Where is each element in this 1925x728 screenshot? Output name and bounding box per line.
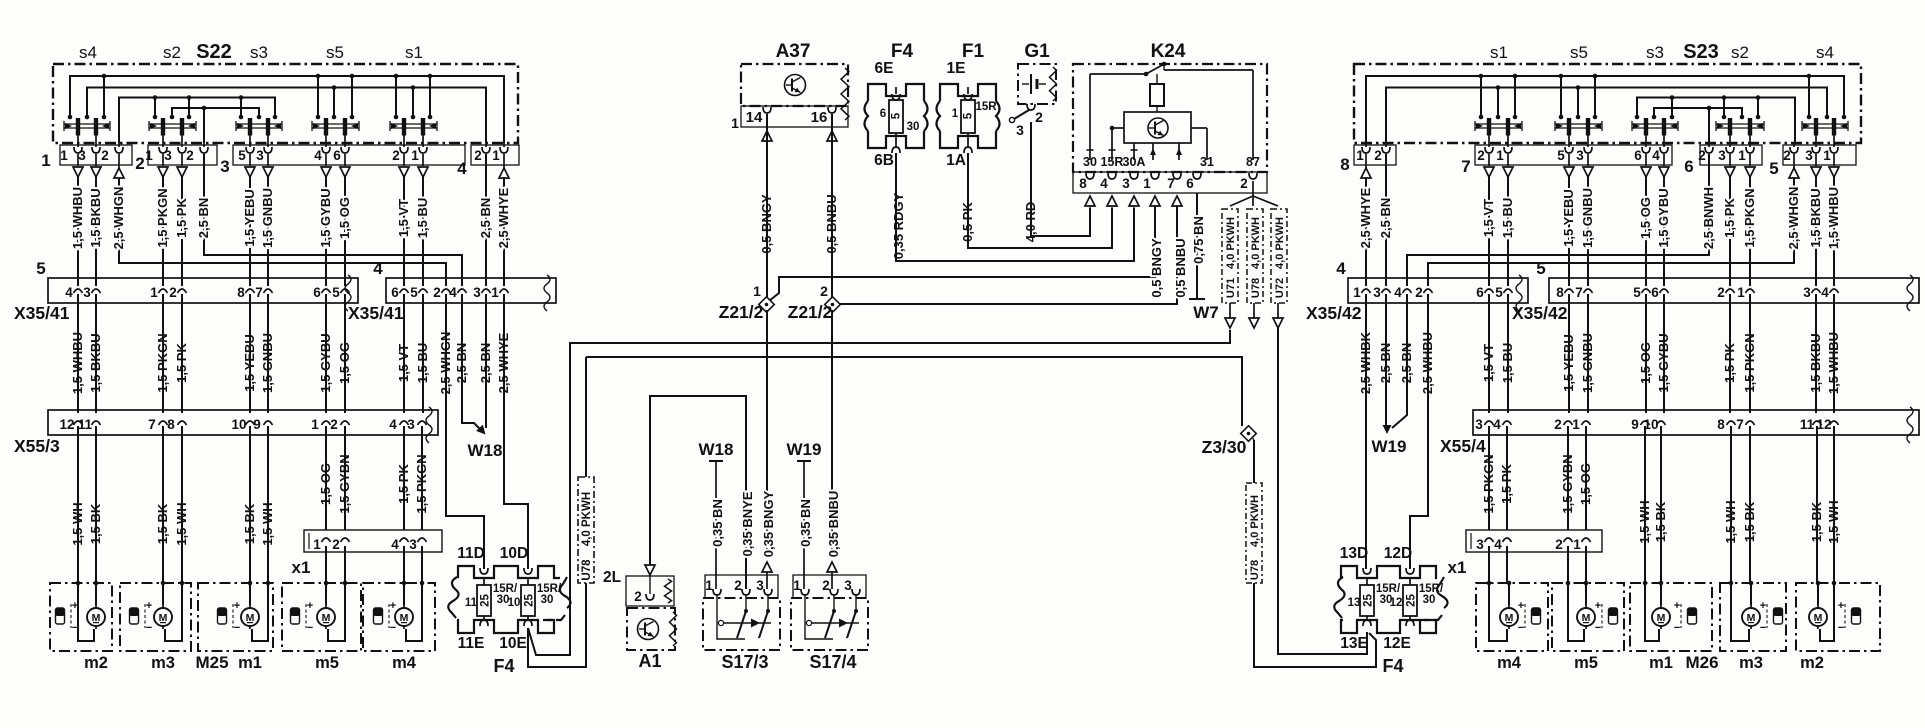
svg-text:Z21/2: Z21/2 <box>788 302 833 322</box>
svg-text:+: + <box>1760 600 1766 612</box>
svg-text:3: 3 <box>220 157 229 176</box>
svg-text:F1: F1 <box>962 41 985 62</box>
svg-text:4,0 PKWH: 4,0 PKWH <box>581 492 593 546</box>
wiper motor box m3 <box>120 583 191 651</box>
A37 internal transistor <box>785 75 806 96</box>
S22 internal bus wire b4 <box>172 108 259 117</box>
svg-text:87: 87 <box>1246 155 1260 169</box>
svg-text:3: 3 <box>1373 285 1381 300</box>
svg-text:F4: F4 <box>1382 656 1403 676</box>
svg-text:11: 11 <box>465 597 478 609</box>
switch pack S23 enclosure <box>1354 64 1861 143</box>
motor m1 right <box>1652 608 1670 626</box>
svg-text:1: 1 <box>492 148 500 163</box>
wire 2,5 WHGN to fuse 11D <box>446 294 484 569</box>
svg-text:13D: 13D <box>1340 545 1368 562</box>
wire 2,5 WHBK to fuse 13D <box>1365 294 1367 569</box>
svg-text:4,0 PKWH: 4,0 PKWH <box>1249 495 1261 547</box>
washer pump switch S17/3 box <box>703 598 780 650</box>
wiper motor box m1 right <box>1630 583 1712 651</box>
K24 pin 2 splice fan-out <box>1252 181 1254 196</box>
K24 relay coil <box>1150 84 1164 106</box>
wire A37-14 to node Z21/2-1 <box>766 114 768 298</box>
svg-text:11D: 11D <box>457 545 485 562</box>
svg-text:1,5 OG: 1,5 OG <box>337 197 352 239</box>
A37 pin row <box>741 106 848 127</box>
motor m3 right <box>1742 608 1760 626</box>
S23 harness connector arrows <box>1488 154 1490 166</box>
S22 connector bracket group 1 <box>60 145 132 165</box>
svg-text:1: 1 <box>1823 148 1831 163</box>
svg-text:2,5 WHYE: 2,5 WHYE <box>1358 187 1373 248</box>
S22 connector bracket group 2 <box>148 145 217 165</box>
svg-text:4,0 PKWH: 4,0 PKWH <box>1250 217 1262 269</box>
svg-text:8: 8 <box>1556 285 1564 300</box>
S23 bus stub junction dots <box>1479 115 1484 120</box>
connector X35/42 left strip <box>1348 278 1528 303</box>
svg-text:3: 3 <box>1805 148 1813 163</box>
wiper motor box m4 <box>363 583 435 651</box>
svg-text:4,0 PKWH: 4,0 PKWH <box>1225 217 1237 269</box>
switch s4 contacts <box>64 123 110 125</box>
svg-text:1,5 WHBU: 1,5 WHBU <box>70 187 85 249</box>
svg-text:U71: U71 <box>1225 278 1237 298</box>
svg-text:2: 2 <box>822 578 830 593</box>
svg-text:2,5 BN: 2,5 BN <box>196 198 211 238</box>
wires X55/4 to x1 and motors right <box>1488 426 1490 530</box>
washer pump switch S17/4 box <box>791 598 868 650</box>
ground W7 <box>1189 298 1205 300</box>
svg-text:8: 8 <box>167 417 175 432</box>
connector X35/42 right strip <box>1549 278 1919 303</box>
svg-text:0,35 BN: 0,35 BN <box>710 499 725 547</box>
svg-text:25: 25 <box>480 594 492 607</box>
svg-text:−: − <box>390 622 396 634</box>
svg-text:1: 1 <box>41 151 50 170</box>
wiper motor box m5 <box>282 583 361 651</box>
svg-text:A37: A37 <box>776 41 811 62</box>
switch s4 contacts right <box>1802 123 1848 125</box>
wire node Z21/2-2 to S17/4-2 <box>831 310 833 552</box>
svg-text:3: 3 <box>1576 148 1584 163</box>
motor m3 <box>154 608 172 626</box>
svg-text:1: 1 <box>705 578 713 593</box>
svg-text:3: 3 <box>1016 122 1024 138</box>
wire heated nozzle A1 to S17/3-2 <box>650 396 746 589</box>
K24 internal connections <box>1111 128 1113 160</box>
svg-text:m4: m4 <box>1497 654 1522 672</box>
wire 2,5 BN to ground W18 <box>462 294 483 432</box>
relay module K24 box <box>1073 64 1267 172</box>
connector X55/3 strip <box>48 410 438 435</box>
svg-text:X35/42: X35/42 <box>1512 303 1568 323</box>
svg-text:1,5 PK: 1,5 PK <box>174 198 189 238</box>
svg-text:2: 2 <box>1374 148 1382 163</box>
svg-text:2,5 BN: 2,5 BN <box>478 198 493 238</box>
wires X35/42 to X55/4 <box>1488 294 1490 413</box>
wire K24-1 to node Z21/2-1 <box>769 206 1155 301</box>
svg-text:0,75 BN: 0,75 BN <box>1191 216 1206 264</box>
svg-text:F4: F4 <box>493 656 514 676</box>
node Z21/2-2 <box>825 297 841 313</box>
wire 2,5 WHGN jog right <box>1428 178 1794 286</box>
svg-text:3: 3 <box>83 285 91 300</box>
fuse housing castellated outline <box>868 84 924 101</box>
svg-text:7: 7 <box>1461 157 1470 176</box>
wire K24-7 to node Z21/2-2 <box>840 206 1177 304</box>
motor m5 <box>317 608 335 626</box>
svg-text:3: 3 <box>409 537 417 552</box>
svg-text:1: 1 <box>753 283 761 299</box>
svg-text:11: 11 <box>1800 417 1815 432</box>
svg-text:m5: m5 <box>1574 654 1598 672</box>
wire 2,5 WHGN jog to X35/41 <box>119 178 446 286</box>
svg-text:8: 8 <box>1079 176 1087 191</box>
wire A37-16 to node Z21/2-2 <box>831 114 833 298</box>
svg-text:s3: s3 <box>250 43 268 62</box>
A37 connector arrows <box>762 131 772 141</box>
svg-text:1: 1 <box>60 148 68 163</box>
switch pack S22 enclosure <box>53 64 518 143</box>
svg-text:31: 31 <box>1200 155 1214 169</box>
svg-text:3: 3 <box>164 148 172 163</box>
svg-text:5: 5 <box>1536 259 1545 278</box>
svg-text:1,5 GNBU: 1,5 GNBU <box>1580 188 1595 248</box>
svg-text:9: 9 <box>1631 417 1639 432</box>
svg-text:A1: A1 <box>638 651 661 671</box>
wires X55/3 to x1 and motors <box>325 426 327 530</box>
wire fuse 10E to splice U71 run <box>528 330 1230 655</box>
svg-text:6: 6 <box>313 285 321 300</box>
svg-text:s5: s5 <box>326 43 344 62</box>
wire 2,5 BN to ground W18 second <box>485 294 487 428</box>
S22 pin terminals <box>77 135 79 147</box>
svg-text:W19: W19 <box>1372 437 1407 456</box>
wire node Z21/2-1 to S17/3-3 <box>766 310 768 552</box>
svg-text:0,35 BNYE: 0,35 BNYE <box>740 491 755 556</box>
K24 relay switch blade <box>1146 63 1166 74</box>
svg-text:15R: 15R <box>975 101 997 113</box>
svg-text:4: 4 <box>1652 148 1660 163</box>
svg-text:1,5 BKBU: 1,5 BKBU <box>1808 188 1823 247</box>
svg-text:1: 1 <box>1353 285 1361 300</box>
svg-text:1: 1 <box>1143 176 1151 191</box>
svg-text:1,5 YEBU: 1,5 YEBU <box>242 189 257 247</box>
svg-text:1: 1 <box>1738 148 1746 163</box>
svg-text:−: − <box>1595 622 1601 634</box>
motor m2 <box>87 608 105 626</box>
S22 connector bracket group 3 <box>233 145 465 165</box>
K24 pin row <box>1073 172 1267 193</box>
fuse 11 (25A) <box>477 585 491 616</box>
svg-text:X35/42: X35/42 <box>1306 303 1362 323</box>
svg-text:Z21/2: Z21/2 <box>719 302 764 322</box>
svg-text:X35/41: X35/41 <box>14 303 70 323</box>
svg-text:13E: 13E <box>1340 635 1368 652</box>
svg-text:10: 10 <box>508 597 521 609</box>
svg-text:4: 4 <box>449 285 457 300</box>
svg-text:2: 2 <box>330 417 338 432</box>
svg-text:1: 1 <box>1573 537 1581 552</box>
svg-text:1: 1 <box>1496 148 1504 163</box>
svg-text:s2: s2 <box>1731 43 1749 62</box>
switch s2 contacts right <box>1716 123 1764 125</box>
wire 2,5 WHBU to fuse 12D <box>1410 294 1428 569</box>
svg-text:2: 2 <box>186 148 194 163</box>
svg-text:4: 4 <box>373 259 383 278</box>
S23 internal bus wire b3 <box>1637 98 1795 144</box>
wire U72 to fuse 13E <box>1278 328 1367 654</box>
svg-text:14: 14 <box>746 109 763 126</box>
svg-text:1A: 1A <box>946 152 966 169</box>
S23 connector bracket group 5 <box>1783 145 1856 165</box>
svg-text:2,5 BNWH: 2,5 BNWH <box>1701 187 1716 249</box>
svg-text:10: 10 <box>231 417 246 432</box>
svg-text:6B: 6B <box>874 152 894 169</box>
svg-text:0,5 BNBU: 0,5 BNBU <box>1173 238 1188 297</box>
control module A37 box <box>741 64 848 106</box>
svg-text:1: 1 <box>1737 285 1745 300</box>
splice arrows under cable markers <box>1229 303 1231 318</box>
svg-text:4,0 PKWH: 4,0 PKWH <box>1274 217 1286 269</box>
svg-text:0,35 RDGY: 0,35 RDGY <box>891 192 906 259</box>
svg-text:5: 5 <box>891 112 903 119</box>
S23 connector bracket group 8 <box>1354 145 1396 165</box>
svg-text:X55/4: X55/4 <box>1440 436 1486 456</box>
A37 resistive element <box>841 68 849 120</box>
svg-text:1,5 YEBU: 1,5 YEBU <box>1561 189 1576 247</box>
S23 connector bracket group 7 <box>1475 145 1672 165</box>
fuse housing castellated outline <box>940 84 996 101</box>
svg-text:+: + <box>1838 600 1844 612</box>
svg-text:2: 2 <box>1554 417 1562 432</box>
svg-text:2: 2 <box>474 148 482 163</box>
svg-text:−: − <box>1518 622 1524 634</box>
wire fuse 6B to K24-3 <box>896 153 1134 261</box>
svg-text:m4: m4 <box>392 654 417 672</box>
svg-text:11E: 11E <box>458 635 485 652</box>
svg-text:W18: W18 <box>699 440 734 459</box>
switch S17/4 contacts <box>811 622 859 624</box>
connector x1 left <box>304 530 442 552</box>
S22 internal bus wire b2 <box>87 88 486 144</box>
svg-text:1,5 PKGN: 1,5 PKGN <box>155 188 170 247</box>
svg-text:6: 6 <box>333 148 341 163</box>
svg-text:2: 2 <box>1240 176 1248 191</box>
svg-text:6E: 6E <box>875 60 894 77</box>
svg-text:+: + <box>307 600 313 612</box>
svg-text:2: 2 <box>135 154 144 173</box>
washer pump switch S17/4 pin bracket <box>793 575 866 598</box>
svg-text:3: 3 <box>1718 148 1726 163</box>
svg-text:1,5 OG: 1,5 OG <box>1638 197 1653 239</box>
svg-text:3: 3 <box>407 417 415 432</box>
K24 internal wiring <box>1089 74 1091 160</box>
svg-text:2: 2 <box>332 537 340 552</box>
svg-text:7: 7 <box>255 285 263 300</box>
fuse housing outline <box>448 577 458 618</box>
svg-text:1,5 BU: 1,5 BU <box>1500 198 1515 238</box>
svg-text:25: 25 <box>524 594 536 607</box>
S22 harness connector arrows <box>77 154 79 166</box>
svg-text:W18: W18 <box>468 441 503 460</box>
svg-text:5: 5 <box>1557 148 1565 163</box>
svg-text:4: 4 <box>1821 285 1829 300</box>
svg-text:6: 6 <box>1476 285 1484 300</box>
svg-text:11: 11 <box>78 417 93 432</box>
wire fuse 10E to splice U78 run <box>528 583 586 667</box>
svg-text:1: 1 <box>491 285 499 300</box>
svg-text:+: + <box>1518 600 1524 612</box>
svg-text:U72: U72 <box>1274 278 1286 298</box>
wire 2,5 BNWH jog right <box>1407 154 1709 286</box>
heated washer nozzle A1 <box>645 565 655 575</box>
svg-text:3: 3 <box>473 285 481 300</box>
svg-text:3: 3 <box>78 148 86 163</box>
svg-text:6: 6 <box>1651 285 1659 300</box>
svg-text:3: 3 <box>1475 417 1483 432</box>
svg-text:3: 3 <box>1803 285 1811 300</box>
svg-text:x1: x1 <box>1448 558 1467 577</box>
wire 2,5 BN to ground W19 right <box>1385 294 1387 426</box>
svg-text:0,5 BNGY: 0,5 BNGY <box>1149 238 1164 298</box>
connector X35/41 left strip <box>48 278 358 303</box>
fuse 12 (25A) <box>1403 585 1417 616</box>
fuse 10 (25A) <box>521 585 535 616</box>
svg-text:6: 6 <box>391 285 399 300</box>
svg-text:4: 4 <box>1336 259 1346 278</box>
svg-text:1: 1 <box>1356 148 1364 163</box>
svg-text:s5: s5 <box>1570 43 1588 62</box>
svg-text:15R: 15R <box>1101 155 1124 169</box>
svg-text:4: 4 <box>65 285 73 300</box>
svg-text:5: 5 <box>332 285 340 300</box>
svg-text:U78: U78 <box>1249 560 1261 580</box>
svg-text:W19: W19 <box>787 440 822 459</box>
svg-text:2,5 WHYE: 2,5 WHYE <box>496 187 511 248</box>
svg-text:2: 2 <box>392 148 400 163</box>
wire G1 to K24-8 <box>1031 122 1090 236</box>
connector x1 right <box>1466 530 1602 552</box>
svg-text:1,5 GYBU: 1,5 GYBU <box>318 188 333 247</box>
svg-text:12: 12 <box>1816 417 1831 432</box>
svg-text:12D: 12D <box>1384 545 1412 562</box>
wire K24-6 to ground W7 <box>1196 193 1198 299</box>
cable marker U72 <box>1271 209 1287 303</box>
switch s3 contacts <box>236 123 282 125</box>
svg-text:2,5 WHGN: 2,5 WHGN <box>1786 187 1801 250</box>
svg-text:4: 4 <box>314 148 322 163</box>
svg-text:1: 1 <box>731 115 739 131</box>
svg-text:m2: m2 <box>84 654 108 672</box>
svg-text:4: 4 <box>457 159 467 178</box>
washer pump switch S17/3 pin bracket <box>705 575 778 598</box>
motor m2 right <box>1809 608 1827 626</box>
wires X35/41 to X55/3 <box>77 294 79 413</box>
svg-text:X55/3: X55/3 <box>14 436 60 456</box>
svg-text:−: − <box>307 622 313 634</box>
svg-text:5: 5 <box>238 148 246 163</box>
svg-text:2: 2 <box>734 578 742 593</box>
svg-text:+: + <box>234 600 240 612</box>
S22 connector bracket group 4 <box>471 145 519 165</box>
svg-text:W7: W7 <box>1193 303 1219 322</box>
svg-text:1: 1 <box>150 285 158 300</box>
svg-text:X35/41: X35/41 <box>348 303 404 323</box>
svg-text:4: 4 <box>389 417 397 432</box>
svg-text:2: 2 <box>1717 285 1725 300</box>
svg-text:1,5 GYBU: 1,5 GYBU <box>1656 188 1671 247</box>
svg-text:1,5 PKGN: 1,5 PKGN <box>1742 188 1757 247</box>
svg-text:0,35 BNGY: 0,35 BNGY <box>761 490 776 557</box>
svg-text:4: 4 <box>1394 285 1402 300</box>
svg-text:−: − <box>1838 622 1844 634</box>
motor m4 right <box>1500 608 1518 626</box>
svg-text:0,35 BNBU: 0,35 BNBU <box>826 491 841 557</box>
svg-text:5: 5 <box>1495 285 1503 300</box>
svg-text:5: 5 <box>963 112 975 119</box>
motor m5 right <box>1577 608 1595 626</box>
svg-text:6: 6 <box>1684 157 1693 176</box>
wiper motor box m2 <box>50 583 112 651</box>
svg-text:2: 2 <box>101 148 109 163</box>
svg-text:12E: 12E <box>1383 635 1411 652</box>
switch s5 contacts right <box>1555 123 1602 125</box>
svg-text:1: 1 <box>311 417 319 432</box>
cable marker U78 <box>1247 209 1263 303</box>
wire 2,5 WHYE to fuse 10D <box>504 294 528 569</box>
svg-text:30: 30 <box>541 594 554 606</box>
svg-text:6: 6 <box>880 108 886 120</box>
G1 resistive element <box>1050 67 1057 101</box>
svg-text:s1: s1 <box>1490 43 1508 62</box>
svg-text:6: 6 <box>1634 148 1642 163</box>
svg-text:1: 1 <box>1572 417 1580 432</box>
svg-text:1,5 GNBU: 1,5 GNBU <box>260 188 275 248</box>
svg-text:8: 8 <box>1340 155 1349 174</box>
svg-text:30: 30 <box>1083 155 1097 169</box>
svg-text:5: 5 <box>1769 159 1778 178</box>
svg-text:2: 2 <box>433 285 441 300</box>
wire Z3/30 to fuse 13E via U78 <box>1252 437 1254 440</box>
switch s5 contacts <box>312 123 359 125</box>
svg-text:8: 8 <box>237 285 245 300</box>
svg-text:2: 2 <box>169 285 177 300</box>
node Z3/30 <box>1241 426 1257 442</box>
svg-text:1E: 1E <box>947 60 966 77</box>
svg-text:2: 2 <box>1035 109 1043 125</box>
svg-text:G1: G1 <box>1024 41 1050 62</box>
S22 bus stub junction dots <box>68 115 73 120</box>
switch s2 contacts <box>149 123 196 125</box>
switch S17/3 contacts <box>723 622 771 624</box>
svg-text:S17/3: S17/3 <box>721 652 768 672</box>
wire 2,5 BN straight to X35/41 <box>485 154 487 286</box>
svg-text:30: 30 <box>907 121 920 133</box>
svg-text:3: 3 <box>1476 537 1484 552</box>
svg-text:s1: s1 <box>405 43 423 62</box>
svg-text:10D: 10D <box>500 545 528 562</box>
svg-text:13: 13 <box>1348 597 1361 609</box>
svg-text:2: 2 <box>820 283 828 299</box>
motor m4 <box>395 608 413 626</box>
svg-text:1,5 BU: 1,5 BU <box>415 198 430 238</box>
svg-text:10E: 10E <box>499 635 527 652</box>
svg-text:−: − <box>1760 622 1766 634</box>
fuse element 6 (5A) <box>889 100 903 133</box>
svg-text:1: 1 <box>411 148 419 163</box>
wiper motor box m2 right <box>1796 583 1880 651</box>
